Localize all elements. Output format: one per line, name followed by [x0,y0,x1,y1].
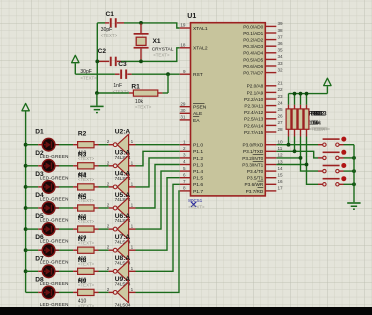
push button switch 2 [318,152,344,160]
svg-text:2: 2 [107,224,110,229]
node: LED bus junction row 1 [24,143,28,147]
pin P1.5 (pin 6) of U1 [180,172,204,181]
svg-text:D6: D6 [35,234,44,241]
pin XTAL1 (pin 19) of U1 [180,23,208,32]
label X1 [153,38,161,45]
svg-text:14: 14 [278,166,284,171]
wire: switch 4 to ground bus [344,183,355,185]
inverter gate U5:A (74LS04, mirrored) [109,198,136,219]
svg-text:10: 10 [278,140,284,145]
svg-text:P1.2: P1.2 [193,156,203,162]
value 410 (R6) [78,235,87,241]
svg-text:24: 24 [278,100,284,105]
label &lt;TEXT&gt; (C1) [101,33,118,38]
svg-text:26: 26 [278,114,284,119]
label D3 [35,171,44,178]
label &lt;TEXT&gt; (R1) [135,104,152,109]
svg-text:D1: D1 [35,129,44,136]
wire: top lead R11 [294,94,296,105]
value 410 (R2) [78,151,87,157]
LED D8 (LED-GREEN) [38,286,59,299]
resistor R11 (10k pull-up) [292,105,297,137]
wire: R2 to gate U2:A output [99,144,109,146]
wire: R7 to gate U7:A output [99,249,109,251]
label R11 [311,110,323,117]
value 74LS04 (U5:A) [115,218,131,223]
svg-text:U6:A: U6:A [115,213,131,220]
resistor R5 [73,205,98,211]
LED D5 (LED-GREEN) [38,223,59,236]
value 30pF (C1) [101,27,112,33]
LED D4 (LED-GREEN) [38,202,59,215]
svg-text:9: 9 [183,69,186,74]
svg-text:X1: X1 [153,38,161,45]
label D4 [35,192,44,199]
svg-text:2: 2 [107,160,110,165]
label R3 [78,152,87,159]
pin number 1 (U6:A input) [131,224,134,229]
pin ALE (pin 30) of U1 [180,108,203,117]
pin EA (pin 31) of U1 [180,115,201,124]
wire: P3.2 stub to R12 [276,157,300,159]
wire: R3 to gate U3:A output [99,165,109,167]
label U4:A [115,171,131,178]
pin P2.7/A15 (pin 28) of U1 [244,127,283,135]
resistor R10 (10k pull-up) [286,105,291,137]
wire: switch 1 to ground bus [344,144,355,146]
svg-text:16: 16 [278,179,284,184]
svg-text:4: 4 [183,159,186,164]
svg-text:31: 31 [180,115,186,120]
svg-text:P1.4: P1.4 [193,169,203,175]
pin P3.1/TXD (pin 11) of U1 [243,146,283,154]
wire: D1 to R2 [59,144,73,146]
pin P1.6 (pin 7) of U1 [180,179,204,188]
ground (switches) [347,202,360,210]
label R1 [131,83,140,90]
value LED-GREEN (D1) [40,154,69,159]
wire: D2 to R3 [59,165,73,167]
svg-text:33: 33 [278,61,284,66]
pin P3.7/RD (pin 17) of U1 [246,186,283,194]
svg-text:PSEN: PSEN [193,105,207,111]
pin number 2 (U4:A output) [107,181,110,186]
label D6 [35,234,44,241]
label &lt;TEXT&gt; (C3) [113,89,130,94]
svg-text:22: 22 [278,87,284,92]
svg-text:R5: R5 [78,194,87,201]
svg-text:2: 2 [183,146,186,151]
LED D1 (LED-GREEN) [38,138,59,151]
pin number 1 (U9:A input) [131,287,134,292]
svg-text:5: 5 [183,166,186,171]
svg-text:P3.2/INT0: P3.2/INT0 [242,156,263,161]
svg-text:1: 1 [131,181,134,186]
svg-text:1: 1 [131,287,134,292]
svg-text:2: 2 [107,245,110,250]
pin XTAL2 (pin 18) of U1 [180,43,208,52]
value LED-GREEN (D3) [40,196,69,201]
marker: button 2 red knob [341,150,346,155]
wire: R4 to gate U4:A output [99,186,109,188]
pin number 2 (U9:A output) [107,287,110,292]
label U2:A [115,129,131,136]
value LED-GREEN (D6) [40,260,69,265]
pin P2.3/A11 (pin 24) of U1 [244,100,283,108]
svg-text:LED-GREEN: LED-GREEN [40,239,69,244]
wire: U3:A input to P1.1 [136,151,180,166]
pin P0.5/AD5 (pin 34) of U1 [243,54,283,62]
pin P3.5/T1 (pin 15) of U1 [247,173,283,181]
label U7:A [115,234,131,241]
resistor R6 [73,226,98,232]
svg-text:23: 23 [278,94,284,99]
svg-text:R3: R3 [78,152,87,159]
resistor R8 [73,268,98,274]
svg-text:P1.5: P1.5 [193,176,203,182]
pin number 1 (U4:A input) [131,181,134,186]
svg-text:D4: D4 [35,192,44,199]
wire: bus to D4 anode [26,207,39,209]
svg-text:R1: R1 [131,83,140,90]
svg-text:P0.6/AD6: P0.6/AD6 [243,64,263,69]
svg-text:P2.2/A10: P2.2/A10 [244,97,264,102]
label &lt;TEXT&gt; (R7) [78,261,95,266]
resistor R1 [129,90,163,96]
svg-text:LED-GREEN: LED-GREEN [40,260,69,265]
pin P1.7 (pin 8) of U1 [180,186,204,195]
svg-text:R4: R4 [78,173,87,180]
inverter gate U4:A (74LS04, mirrored) [109,177,136,198]
resistor R9 [73,289,98,295]
label &lt;TEXT&gt; (X1) [153,52,170,57]
microcontroller U1 (80C51) body [191,23,266,196]
wire: D6 to R7 [59,249,73,251]
resistor R7 [73,247,98,253]
inverter gate U3:A (74LS04, mirrored) [109,155,136,176]
value 10k (R12) [312,121,321,127]
node: top bus junction R12 [299,92,303,96]
svg-text:LED-GREEN: LED-GREEN [40,281,69,286]
svg-text:U7:A: U7:A [115,234,131,241]
svg-text:P3.3/INT1: P3.3/INT1 [242,162,263,167]
svg-text:R9: R9 [78,278,87,285]
svg-text:P1.3: P1.3 [193,162,203,168]
power symbol (VCC arrow, pull-up resistors) [324,78,331,93]
svg-text:P0.2/AD2: P0.2/AD2 [243,38,263,43]
wire: D7 to R8 [59,270,73,272]
value 74LS04 (U7:A) [115,260,131,265]
svg-text:2: 2 [107,266,110,271]
pin P0.2/AD2 (pin 37) of U1 [243,34,283,42]
pin P2.5/A13 (pin 26) of U1 [244,114,283,122]
resistor R3 [73,163,98,169]
value 74LS04 (U8:A) [115,282,131,287]
svg-text:1: 1 [131,245,134,250]
label &lt;TEXT&gt; (C2) [80,75,97,80]
wire: R6 to gate U6:A output [99,228,109,230]
wire: R1 left to ground node [97,92,129,94]
pin P2.1/A9 (pin 22) of U1 [247,87,283,95]
svg-text:P2.6/A14: P2.6/A14 [244,123,264,128]
svg-text:D3: D3 [35,171,44,178]
wire: XTAL1 net (C1 right to pin 19 with jog) [97,23,179,28]
pin number 1 (U3:A input) [131,160,134,165]
label D5 [35,213,44,220]
wire: top lead R12 [300,94,302,105]
pin number 2 (U3:A output) [107,160,110,165]
pin number 1 (U5:A input) [131,203,134,208]
pin P0.6/AD6 (pin 33) of U1 [243,61,283,69]
pin P1.1 (pin 2) of U1 [180,146,204,155]
label &lt;TEXT&gt; (R8) [78,283,95,288]
svg-text:P0.7/AD7: P0.7/AD7 [243,71,263,76]
svg-text:38: 38 [278,28,284,33]
pin number 1 (U7:A input) [131,245,134,250]
svg-text:2: 2 [107,287,110,292]
inverter gate U6:A (74LS04, mirrored) [109,219,136,240]
svg-text:P0.3/AD3: P0.3/AD3 [243,44,263,49]
value 10k (R11) [310,121,319,127]
wire: RST net (VCC arrow through C3 to pin 9) [75,73,179,75]
wire: top lead R13 [306,94,308,105]
svg-text:17: 17 [278,186,284,191]
node: LED bus junction row 3 [24,185,28,189]
svg-text:<TEXT>: <TEXT> [80,75,97,80]
svg-text:C2: C2 [98,48,107,55]
marker: origin cross (U1) [191,202,196,207]
node: R1/ground junction [95,91,99,95]
node: R10/P3.0 junction [287,137,291,147]
pin P3.4/T0 (pin 14) of U1 [247,166,283,174]
value LED-GREEN (D5) [40,239,69,244]
pin number 2 (U2:A output) [107,139,110,144]
svg-text:1: 1 [131,203,134,208]
resistor R13 (10k pull-up) [304,105,309,137]
wire: R1 right lead up to RST net [162,74,168,93]
svg-text:<TEXT>: <TEXT> [188,205,205,210]
svg-text:25: 25 [278,107,284,112]
node: C1/X1 junction [139,21,143,25]
svg-text:LED-GREEN: LED-GREEN [40,302,69,307]
wire: bus to D1 anode [26,144,39,146]
wire: D5 to R6 [59,228,73,230]
pin P2.2/A10 (pin 23) of U1 [244,94,283,102]
svg-text:P2.3/A11: P2.3/A11 [244,104,263,109]
svg-text:P0.0/AD0: P0.0/AD0 [243,24,263,29]
svg-text:D2: D2 [35,150,44,157]
node: C2 left junction [95,60,99,64]
label R8 [78,257,87,264]
svg-text:U8:A: U8:A [115,255,131,262]
label &lt;TEXT&gt; (R11) [310,127,327,132]
svg-text:U3:A: U3:A [115,150,131,157]
value LED-GREEN (D7) [40,281,69,286]
wire: P3.3 stub to R13 [276,164,306,166]
svg-text:U5:A: U5:A [115,192,131,199]
inverter gate U2:A (74LS04, mirrored) [109,134,136,155]
svg-text:27: 27 [278,120,284,125]
node: LED bus junction row 8 [0,0,1,1]
bottom window border bar [0,307,372,315]
wire: bus to D6 anode [26,249,39,251]
wire: bus to D2 anode [26,165,39,167]
value 1nF [113,83,122,89]
svg-text:<TEXT>: <TEXT> [153,52,170,57]
value 74LS04 (U2:A) [115,155,131,160]
svg-text:XTAL1: XTAL1 [193,26,208,32]
pin P2.6/A14 (pin 27) of U1 [244,120,283,128]
marker: button 1 red knob [341,137,346,142]
svg-text:EA: EA [193,118,200,124]
pin P0.0/AD0 (pin 39) of U1 [243,21,283,29]
value 10k (R13) [313,121,322,127]
LED D6 (LED-GREEN) [38,244,59,257]
label C2 [98,48,107,55]
wire: U7:A input to P1.5 [136,178,180,251]
value LED-GREEN (D2) [40,175,69,180]
label &lt;TEXT&gt; (R5) [78,219,95,224]
svg-text:P1.1: P1.1 [193,149,203,155]
node: ground bus junction 4 [352,182,356,186]
label R9 [78,278,87,285]
wire: switch 2 to ground bus [344,157,355,159]
pin number 2 (U7:A output) [107,245,110,250]
svg-text:P1.6: P1.6 [193,182,203,188]
svg-text:D8: D8 [35,276,44,283]
svg-text:U9:A: U9:A [115,276,131,283]
crystal X1 [134,24,149,62]
wire: bus to D8 anode [26,291,39,293]
pin number 2 (U8:A output) [107,266,110,271]
LED D3 (LED-GREEN) [38,181,59,194]
svg-text:U1: U1 [187,13,196,20]
wire: P3.0 to switch 1 [276,144,318,146]
svg-text:LED-GREEN: LED-GREEN [40,154,69,159]
wire: bus to D5 anode [26,228,39,230]
label D7 [35,255,44,262]
label R4 [78,173,87,180]
pin P1.3 (pin 4) of U1 [180,159,204,168]
label R13 [315,110,327,117]
node: R11/P3.1 junction [293,137,297,154]
svg-text:LED-GREEN: LED-GREEN [40,175,69,180]
value 410 (R9) [78,298,87,304]
label D8 [35,276,44,283]
inverter gate U9:A (74LS04, mirrored) [109,282,136,303]
label &lt;TEXT&gt; (R3) [78,177,95,182]
pin P1.4 (pin 5) of U1 [180,166,204,175]
svg-text:LED-GREEN: LED-GREEN [40,196,69,201]
node: RST/R1 junction [166,72,170,76]
wire: R12 lead down to switch 3 [299,137,318,172]
pin number 1 (U2:A input) [131,139,134,144]
svg-text:13: 13 [278,159,284,164]
wire: R5 to gate U5:A output [99,207,109,209]
pin P3.3/INT1 (pin 13) of U1 [242,159,283,167]
value 80C51 [188,198,202,204]
svg-text:P3.4/T0: P3.4/T0 [247,169,264,174]
svg-text:P2.0/A8: P2.0/A8 [247,84,264,89]
svg-text:39: 39 [278,21,284,26]
svg-text:15: 15 [278,173,284,178]
node: LED bus junction row 5 [24,227,28,231]
label &lt;TEXT&gt; (R4) [78,198,95,203]
pin RST (pin 9) of U1 [180,69,203,78]
wire: U2:A input to P1.0 [136,144,180,146]
svg-text:R13: R13 [315,110,327,117]
svg-text:19: 19 [180,23,186,28]
value LED-GREEN (D8) [40,302,69,307]
pin number 1 (U8:A input) [131,266,134,271]
label &lt;TEXT&gt; (R12) [312,127,329,132]
wire: P3.1 to switch 2 (jog) [276,151,318,158]
svg-text:C1: C1 [106,11,115,18]
svg-text:P0.5/AD5: P0.5/AD5 [243,57,263,62]
svg-text:P3.6/WR: P3.6/WR [245,182,264,187]
wire: switches ground bus (vertical) [353,145,355,203]
wire: U6:A input to P1.4 [136,171,180,229]
pin P0.3/AD3 (pin 36) of U1 [243,41,283,49]
svg-text:RST: RST [193,72,203,78]
wire: bus to D7 anode [26,270,39,272]
svg-text:XTAL2: XTAL2 [193,46,208,52]
push button switch 4 [318,178,344,186]
svg-text:36: 36 [278,41,284,46]
label U6:A [115,213,131,220]
label &lt;TEXT&gt; (U1) [188,205,205,210]
svg-text:32: 32 [278,67,284,72]
svg-text:6: 6 [183,172,186,177]
svg-text:28: 28 [278,127,284,132]
pin P3.2/INT0 (pin 12) of U1 [242,153,283,161]
capacitor C1 [105,18,124,27]
node: top bus junction R13 [305,92,309,96]
wire: R13 lead down to switch 4 [305,137,318,185]
label C1 [106,11,115,18]
wire: U5:A input to P1.3 [136,165,180,209]
value 30pF (C2) [80,69,91,75]
push button switch 1 [318,138,344,146]
node: LED bus junction row 4 [24,206,28,210]
svg-text:<TEXT>: <TEXT> [314,127,331,132]
label U8:A [115,255,131,262]
svg-text:30: 30 [180,108,186,113]
node: X1 bottom junction [139,60,143,64]
svg-text:1: 1 [131,160,134,165]
label &lt;TEXT&gt; (R6) [78,240,95,245]
label &lt;TEXT&gt; (R10) [309,127,326,132]
wire: U4:A input to P1.2 [136,158,180,187]
wire: D3 to R4 [59,186,73,188]
wire: U8:A input to P1.6 [136,184,180,271]
value 410 (R5) [78,214,87,220]
LED D2 (LED-GREEN) [38,160,59,173]
svg-text:LED-GREEN: LED-GREEN [40,218,69,223]
svg-text:<TEXT>: <TEXT> [101,33,118,38]
svg-text:7: 7 [183,179,186,184]
label D2 [35,150,44,157]
pin P3.6/WR (pin 16) of U1 [245,179,284,187]
pin P0.4/AD4 (pin 35) of U1 [243,48,283,56]
svg-text:P3.7/RD: P3.7/RD [246,189,264,194]
svg-text:R2: R2 [78,131,87,138]
wire: XTAL2 net (C2 right to pin 18 with jog) [121,48,180,62]
pin number 2 (U6:A output) [107,224,110,229]
svg-text:R7: R7 [78,236,87,243]
wire: switch 3 to ground bus [344,170,355,172]
svg-text:D5: D5 [35,213,44,220]
